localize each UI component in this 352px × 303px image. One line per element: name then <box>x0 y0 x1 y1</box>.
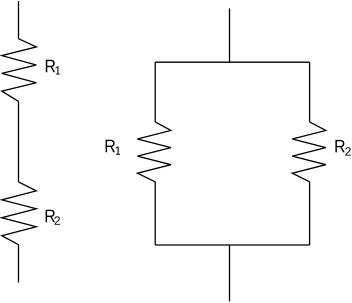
wire: series circuit bottom lead <box>18 245 20 283</box>
resistor R2 (parallel circuit, right branch) <box>292 122 326 182</box>
label R1 (series circuit) <box>46 60 60 75</box>
label R2 (series circuit) <box>46 210 60 225</box>
wire: series circuit top lead <box>18 1 20 39</box>
wire: parallel circuit top lead <box>229 8 231 62</box>
wire: parallel circuit left branch lower segment <box>154 182 156 245</box>
resistor R1 (parallel circuit, left branch) <box>137 122 171 182</box>
wire: parallel circuit right branch lower segment <box>309 182 311 245</box>
wire: parallel circuit left branch upper segment <box>154 62 156 122</box>
wire: parallel circuit bottom bar <box>155 244 309 246</box>
label R1 (parallel circuit) <box>106 140 120 155</box>
resistor R1 (series circuit) <box>2 39 37 102</box>
wire: parallel circuit bottom lead <box>229 245 231 301</box>
wire: parallel circuit top bar <box>155 61 309 63</box>
label R2 (parallel circuit) <box>335 140 350 156</box>
resistor R2 (series circuit) <box>2 182 37 245</box>
wire: series circuit middle segment between R1 and R2 <box>18 101 20 181</box>
wire: parallel circuit right branch upper segment <box>309 62 311 122</box>
